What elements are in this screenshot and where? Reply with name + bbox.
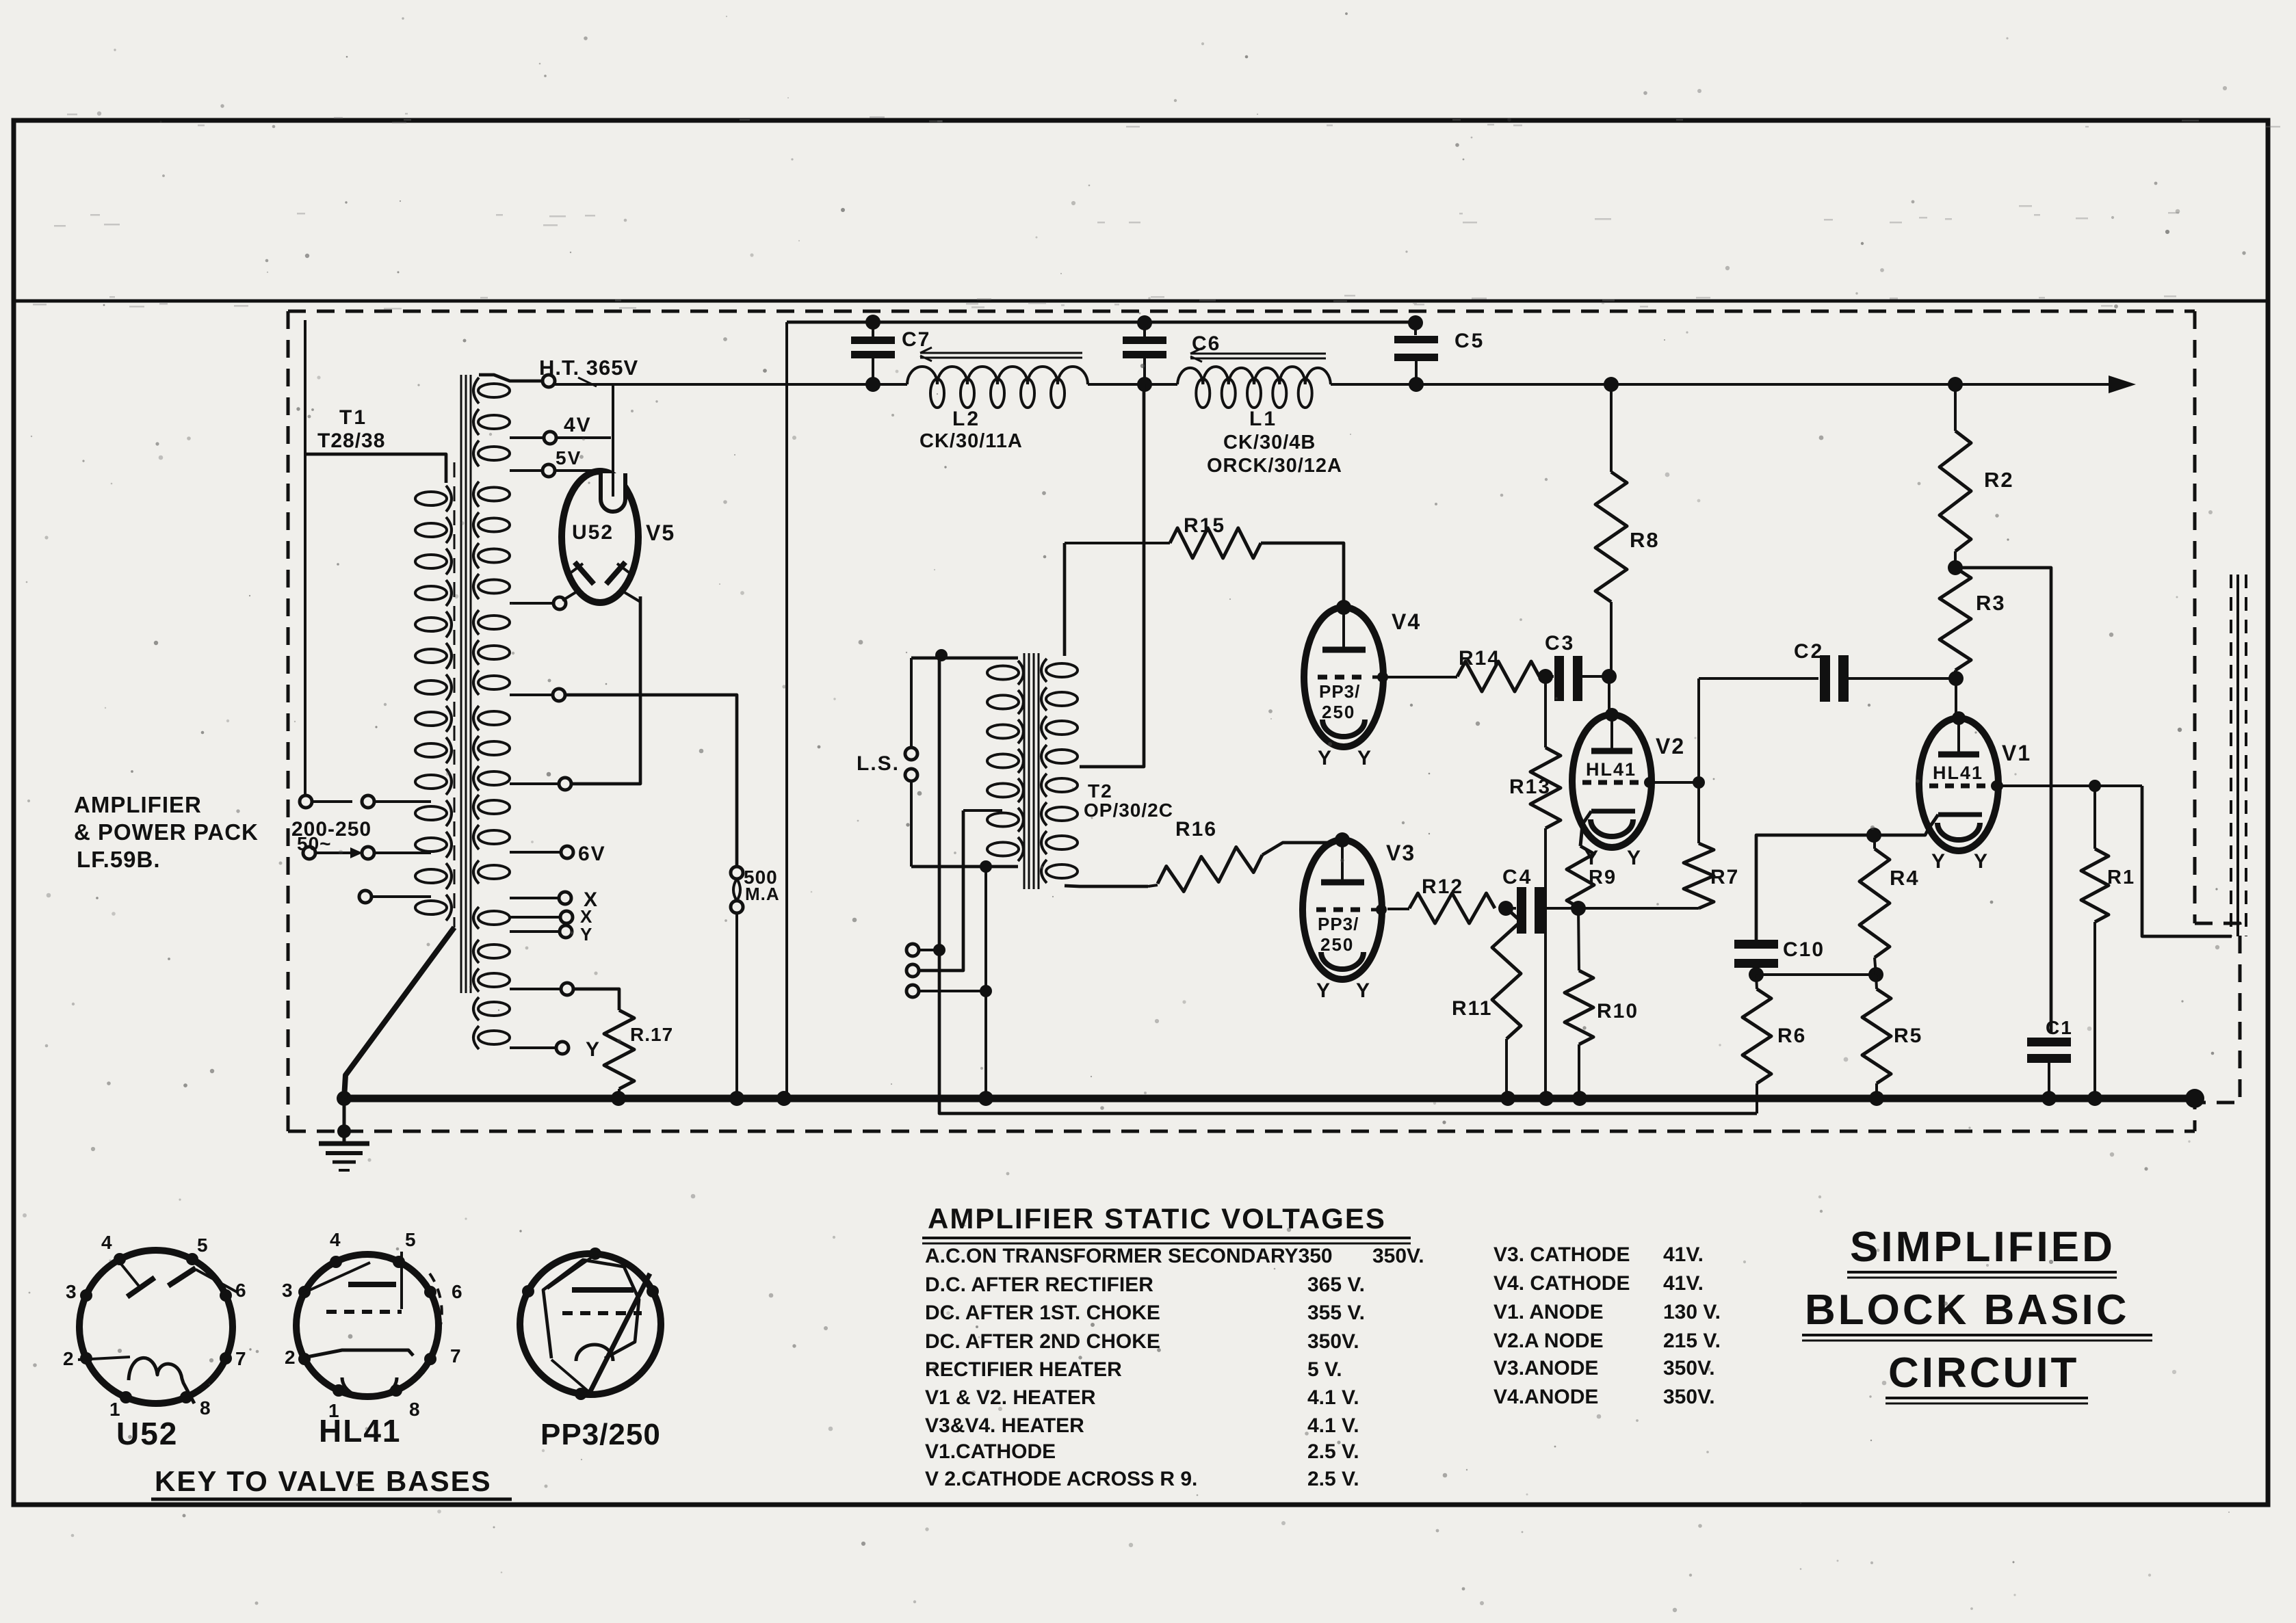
bus junction dot x2204 — [1500, 1091, 1515, 1106]
svg-text:PP3/: PP3/ — [1319, 681, 1360, 702]
svg-text:H.T. 365V: H.T. 365V — [539, 356, 638, 380]
svg-text:U52: U52 — [116, 1416, 178, 1451]
T2 primary winding — [1046, 663, 1078, 677]
svg-text:R4: R4 — [1890, 866, 1920, 890]
dashed enclosure left — [287, 311, 290, 1131]
svg-text:L2: L2 — [952, 408, 980, 430]
V5 right anode — [606, 562, 625, 584]
LS terminal wire bottom — [910, 782, 913, 867]
tap to R17 wire — [573, 989, 619, 1010]
svg-text:Y: Y — [1931, 850, 1946, 873]
svg-text:D.C. AFTER RECTIFIER: D.C. AFTER RECTIFIER — [925, 1274, 1153, 1296]
HL41 dashed rim — [430, 1274, 442, 1342]
V5 top notch — [601, 473, 625, 512]
mains input terminal B1 — [303, 847, 315, 859]
svg-text:C2: C2 — [1794, 640, 1824, 663]
valve V5 envelope — [562, 471, 638, 603]
T2 primary bottom lead — [1065, 886, 1148, 886]
bus junction dot x503 — [337, 1091, 352, 1106]
svg-text:V1: V1 — [2002, 741, 2031, 765]
V1 anode feed — [1955, 678, 1957, 719]
6V tap — [510, 851, 561, 854]
T1 core — [460, 375, 462, 993]
HL41 anode — [348, 1282, 396, 1287]
V5 right anode lead — [620, 590, 640, 602]
svg-text:RECTIFIER HEATER: RECTIFIER HEATER — [925, 1358, 1122, 1381]
svg-text:5: 5 — [197, 1235, 208, 1256]
HL41 pins — [330, 1256, 342, 1268]
T2 secondary bottom lead — [911, 865, 1018, 869]
U52 pins — [114, 1253, 126, 1265]
Y1 tap — [510, 930, 560, 933]
HT rail segment 2 — [1088, 383, 1177, 386]
svg-text:R7: R7 — [1710, 866, 1739, 888]
dashed enclosure right — [2193, 311, 2197, 923]
T1 secondary seg B — [478, 488, 510, 501]
svg-text:R10: R10 — [1597, 1000, 1639, 1022]
svg-text:C6: C6 — [1192, 332, 1221, 355]
valve V2 — [1572, 715, 1652, 847]
choke L2 — [907, 367, 937, 384]
svg-text:350V.: 350V. — [1663, 1357, 1715, 1380]
T2 secondary top lead — [911, 657, 1018, 660]
jack terminal 2 — [906, 964, 919, 977]
R2 lower lead — [1954, 551, 1957, 568]
svg-text:DC. AFTER 2ND CHOKE: DC. AFTER 2ND CHOKE — [925, 1330, 1160, 1353]
svg-text:4V: 4V — [564, 414, 592, 436]
svg-text:R3: R3 — [1976, 591, 2006, 615]
capacitor C7 — [865, 315, 880, 330]
capacitor C2 — [1699, 677, 1818, 680]
svg-text:130 V.: 130 V. — [1663, 1301, 1721, 1323]
resistor R7 — [1697, 782, 1700, 843]
resistor R1 — [2093, 786, 2096, 849]
resistor R10 — [1578, 908, 1579, 971]
node T2 top wire — [935, 649, 948, 661]
svg-text:Y: Y — [1318, 747, 1332, 769]
svg-text:C4: C4 — [1502, 866, 1532, 888]
T1 secondary seg F — [478, 865, 510, 879]
svg-text:350V.: 350V. — [1307, 1330, 1359, 1353]
svg-text:6: 6 — [235, 1280, 246, 1301]
svg-text:T2: T2 — [1088, 780, 1113, 802]
svg-text:C10: C10 — [1783, 938, 1825, 961]
svg-text:Y: Y — [1974, 850, 1988, 873]
svg-text:V1 & V2. HEATER: V1 & V2. HEATER — [925, 1386, 1096, 1409]
ground bus — [344, 1095, 2195, 1103]
svg-text:7: 7 — [235, 1348, 246, 1369]
node R1 top — [2089, 780, 2101, 792]
svg-text:5 V.: 5 V. — [1307, 1358, 1342, 1381]
5V tap — [510, 469, 543, 472]
T1 secondary seg G — [478, 911, 510, 925]
T1 screen dashed line — [454, 462, 456, 927]
svg-text:R13: R13 — [1509, 776, 1551, 798]
svg-text:350V.: 350V. — [1372, 1245, 1424, 1267]
svg-text:SIMPLIFIED: SIMPLIFIED — [1850, 1224, 2115, 1271]
resistor R4 — [1860, 849, 1890, 958]
centre tap to fuse wire — [565, 695, 737, 867]
T2 secondary winding — [987, 666, 1019, 680]
grid wire to input connector — [2142, 786, 2232, 936]
svg-text:41V.: 41V. — [1663, 1243, 1704, 1266]
HT terminal — [543, 375, 555, 387]
svg-text:V 2.CATHODE ACROSS R 9.: V 2.CATHODE ACROSS R 9. — [925, 1468, 1197, 1490]
svg-text:C1: C1 — [2046, 1017, 2073, 1038]
svg-text:V4. CATHODE: V4. CATHODE — [1493, 1272, 1630, 1295]
resistor R6 — [1756, 975, 1757, 989]
valve V3 — [1303, 840, 1382, 979]
svg-text:R14: R14 — [1459, 647, 1500, 670]
svg-text:6: 6 — [452, 1281, 462, 1302]
T1 secondary seg C — [478, 616, 510, 629]
L2 core lines — [920, 352, 1082, 354]
mains input terminal C — [359, 890, 371, 903]
svg-text:250: 250 — [1322, 702, 1355, 722]
Y2 tap — [510, 1046, 556, 1049]
capacitor C1 — [2027, 1038, 2071, 1046]
fuse 500MA — [731, 867, 743, 879]
SIMPLIFIED underline — [1847, 1271, 2117, 1274]
bus junction dot x1077 — [729, 1091, 744, 1106]
node T2 bottom — [980, 860, 992, 873]
R15 right wire — [1261, 543, 1344, 605]
svg-text:R2: R2 — [1984, 468, 2014, 492]
heading underline — [922, 1237, 1411, 1239]
R3 lower lead — [1954, 670, 1957, 678]
bus junction dot x2995 — [2041, 1091, 2057, 1106]
svg-text:C3: C3 — [1545, 632, 1575, 655]
resistor R13 — [1544, 676, 1547, 748]
tap 1446 — [510, 988, 561, 990]
svg-text:Y: Y — [580, 924, 592, 945]
tap 1016 (centre tap) — [510, 694, 553, 696]
svg-text:PP3/250: PP3/250 — [540, 1418, 661, 1451]
svg-text:LF.59B.: LF.59B. — [77, 847, 161, 872]
LS terminal 2 — [905, 769, 917, 781]
bus junction dot x2309 — [1572, 1091, 1587, 1106]
svg-text:365 V.: 365 V. — [1307, 1274, 1365, 1296]
svg-text:OP/30/2C: OP/30/2C — [1084, 800, 1173, 821]
jack-common return line — [939, 655, 1757, 1113]
svg-text:Y: Y — [1357, 747, 1372, 769]
svg-text:V3&V4. HEATER: V3&V4. HEATER — [925, 1414, 1084, 1437]
svg-text:M.A: M.A — [745, 884, 780, 904]
mains input terminal A2 — [362, 795, 374, 808]
svg-text:L.S.: L.S. — [857, 752, 900, 775]
choke L1 — [1177, 368, 1203, 384]
capacitor C10 — [1734, 940, 1778, 949]
svg-text:V3.ANODE: V3.ANODE — [1493, 1357, 1598, 1380]
svg-text:R8: R8 — [1630, 528, 1660, 552]
V2 grid riser to C2 — [1697, 678, 1700, 782]
svg-text:Y: Y — [1316, 979, 1331, 1002]
svg-text:3: 3 — [282, 1280, 293, 1301]
svg-text:CK/30/4B: CK/30/4B — [1223, 432, 1316, 453]
tap 882 — [510, 602, 553, 605]
LS terminal wire top — [910, 658, 913, 747]
cathode bias wire — [1756, 973, 1876, 976]
valve base U52 ring — [79, 1250, 233, 1403]
bus junction dot x1146 — [777, 1091, 792, 1106]
svg-text:U52: U52 — [572, 521, 614, 544]
svg-text:8: 8 — [200, 1397, 211, 1419]
HL41 bottom arc — [342, 1377, 397, 1398]
HL41 cathode — [307, 1350, 413, 1357]
svg-text:R11: R11 — [1452, 997, 1492, 1020]
svg-text:BLOCK BASIC: BLOCK BASIC — [1805, 1286, 2130, 1334]
T1 primary winding — [415, 492, 447, 505]
T1 secondary seg Hh — [478, 945, 510, 958]
T1 screen to ground — [344, 927, 454, 1098]
svg-text:Y: Y — [1356, 979, 1370, 1002]
PP3 diagonals — [590, 1274, 650, 1393]
V5 left anode — [575, 562, 594, 584]
R17 to bus — [618, 1089, 621, 1098]
HT rail segment 1 — [555, 383, 907, 386]
svg-text:V3: V3 — [1386, 841, 1416, 865]
jack3/T2 bottom wire — [984, 867, 987, 1098]
node C10/R6 — [1749, 967, 1764, 982]
resistor R5 — [1876, 975, 1877, 989]
U52 cathode — [78, 1357, 130, 1360]
valve V1 — [1919, 718, 1998, 851]
R8 lower lead — [1610, 602, 1613, 676]
ground symbol — [343, 1098, 346, 1144]
resistor R8 feed — [1604, 377, 1619, 392]
svg-text:C5: C5 — [1454, 330, 1485, 352]
resistor R3 — [1940, 568, 1971, 670]
T2 primary top lead — [1063, 543, 1067, 656]
svg-text:R15: R15 — [1184, 514, 1225, 537]
svg-text:R12: R12 — [1422, 875, 1463, 898]
resistor R17 — [604, 1010, 634, 1089]
V5 left anode lead — [562, 590, 580, 601]
dashed enclosure bottom — [288, 1130, 2195, 1133]
svg-text:PP3/: PP3/ — [1318, 914, 1359, 934]
KEY underline — [151, 1498, 512, 1501]
HT rail arrowhead — [2109, 375, 2136, 393]
mains link wire B — [315, 852, 350, 854]
resistor R9 — [1580, 825, 1582, 846]
valve V4 — [1304, 607, 1383, 747]
mains feed wire — [304, 320, 306, 794]
dashed enclosure top — [288, 310, 2195, 313]
capacitor C6 — [1137, 315, 1152, 330]
resistor R12 — [1409, 893, 1495, 923]
tap 1146 — [510, 782, 559, 785]
R16 right wire — [1262, 843, 1340, 855]
T1 secondary seg D — [478, 711, 510, 725]
svg-text:8: 8 — [409, 1399, 420, 1420]
HT lead — [479, 375, 543, 381]
node R4 top — [1866, 828, 1881, 843]
capacitor C5 — [1408, 315, 1423, 330]
svg-text:350V.: 350V. — [1663, 1386, 1715, 1408]
R3 node to C1 wire — [1961, 568, 2051, 1033]
svg-text:215 V.: 215 V. — [1663, 1330, 1721, 1352]
svg-text:AMPLIFIER: AMPLIFIER — [74, 792, 202, 817]
svg-text:4.1 V.: 4.1 V. — [1307, 1414, 1359, 1437]
svg-text:R5: R5 — [1894, 1025, 1922, 1047]
resistor R2 feed — [1948, 377, 1963, 392]
svg-text:C7: C7 — [902, 328, 930, 351]
V1 grid wire — [1998, 784, 2142, 787]
valve base PP3 ring — [520, 1254, 661, 1395]
node R5 top — [1868, 967, 1883, 982]
mains input terminal B2 — [362, 847, 374, 859]
svg-text:Y: Y — [586, 1038, 600, 1061]
input connector inner wire — [2236, 575, 2239, 936]
bus junction dot x2260 — [1539, 1091, 1554, 1106]
valve base HL41 ring — [296, 1254, 439, 1397]
HL41 grid — [326, 1310, 402, 1314]
svg-text:KEY TO VALVE BASES: KEY TO VALVE BASES — [155, 1465, 492, 1497]
CIRCUIT underline — [1886, 1397, 2088, 1399]
svg-text:T28/38: T28/38 — [317, 430, 385, 452]
svg-text:6V: 6V — [578, 843, 606, 865]
svg-text:41V.: 41V. — [1663, 1272, 1704, 1295]
resistor R8 — [1595, 472, 1627, 602]
svg-text:& POWER PACK: & POWER PACK — [74, 819, 259, 845]
cap top collector wire — [787, 321, 1416, 324]
svg-text:5: 5 — [405, 1229, 416, 1250]
svg-text:250: 250 — [1320, 934, 1354, 955]
T1 secondary seg HT-top — [478, 384, 510, 397]
svg-text:4: 4 — [330, 1229, 341, 1250]
dashed enclosure right jog — [2195, 923, 2240, 1131]
svg-text:HL41: HL41 — [1586, 759, 1636, 780]
input connector screen dashed A — [2230, 575, 2232, 936]
svg-text:V1.CATHODE: V1.CATHODE — [925, 1440, 1056, 1463]
jack terminal 3 — [906, 985, 919, 997]
collector wire drop to bus — [785, 322, 788, 1098]
4V tap — [510, 436, 544, 439]
R14 right wire — [1539, 675, 1548, 678]
V2 anode feed — [1608, 676, 1610, 715]
tap1146 to V5 anode wire — [571, 596, 640, 784]
svg-text:A.C.ON TRANSFORMER SECONDARY35: A.C.ON TRANSFORMER SECONDARY350 — [925, 1245, 1333, 1267]
resistor R14 wire — [1383, 676, 1457, 678]
svg-text:Y: Y — [1627, 847, 1641, 869]
svg-text:V4: V4 — [1392, 609, 1421, 634]
PP3 anode bar — [572, 1287, 634, 1293]
R15 left wire — [1065, 542, 1170, 544]
resistor R2 — [1940, 431, 1971, 551]
input connector screen dashed B — [2245, 575, 2247, 936]
svg-text:2.5 V.: 2.5 V. — [1307, 1468, 1359, 1490]
svg-text:T1: T1 — [339, 406, 367, 429]
resistor R11 — [1492, 908, 1521, 1039]
svg-text:3: 3 — [66, 1281, 77, 1302]
PP3 grid — [562, 1311, 642, 1315]
svg-text:V2.A NODE: V2.A NODE — [1493, 1330, 1604, 1352]
svg-text:355 V.: 355 V. — [1307, 1302, 1365, 1324]
svg-text:L1: L1 — [1249, 408, 1277, 430]
V2 grid wire — [1649, 781, 1699, 784]
svg-text:R6: R6 — [1777, 1025, 1806, 1047]
svg-text:2: 2 — [285, 1347, 296, 1368]
fuse to bus wire — [735, 913, 738, 1098]
resistor R14 — [1457, 661, 1539, 691]
svg-text:AMPLIFIER STATIC VOLTAGES: AMPLIFIER STATIC VOLTAGES — [928, 1202, 1386, 1235]
bus junction dot x1441 — [978, 1091, 993, 1106]
T1 primary top lead — [306, 454, 446, 483]
capacitor C3 — [1538, 669, 1553, 684]
bus junction dot x904 — [611, 1091, 626, 1106]
bus junction dot x3062 — [2087, 1091, 2102, 1106]
HT rail segment 3 — [1331, 383, 2128, 386]
capacitor C4 — [1498, 901, 1513, 916]
PP3 cathode arc — [576, 1345, 613, 1361]
svg-text:HL41: HL41 — [319, 1413, 401, 1449]
mains link wire A — [312, 800, 352, 803]
svg-text:R16: R16 — [1175, 818, 1217, 841]
LS terminal 1 — [905, 748, 917, 760]
node R2/R3 — [1948, 560, 1963, 575]
svg-text:V5: V5 — [646, 520, 675, 545]
svg-text:HL41: HL41 — [1933, 763, 1983, 783]
R16 left wire — [1148, 885, 1158, 886]
X2 tap — [510, 916, 560, 919]
T1 secondary seg E — [478, 800, 510, 814]
svg-text:R1: R1 — [2107, 867, 2135, 888]
header divider line — [14, 300, 2268, 303]
svg-text:4: 4 — [101, 1232, 112, 1253]
svg-text:V4.ANODE: V4.ANODE — [1493, 1386, 1598, 1408]
X tap — [510, 897, 559, 899]
svg-text:R9: R9 — [1589, 867, 1617, 888]
PP3 pins — [589, 1248, 601, 1260]
svg-text:R.17: R.17 — [630, 1024, 673, 1045]
svg-text:CIRCUIT: CIRCUIT — [1888, 1349, 2079, 1397]
bus end dot — [2185, 1089, 2204, 1108]
jack terminal 1 — [906, 944, 919, 956]
T2 secondary tap lead — [963, 809, 1002, 812]
svg-text:4.1 V.: 4.1 V. — [1307, 1386, 1359, 1409]
L1 core lines — [1190, 353, 1326, 355]
svg-text:7: 7 — [450, 1345, 461, 1367]
BLOCK underline — [1802, 1334, 2152, 1336]
mains input terminal A1 — [300, 795, 312, 808]
T2 primary centre tap — [1080, 384, 1144, 767]
bus junction dot x2743 — [1869, 1091, 1884, 1106]
PP3 inner outline — [543, 1260, 639, 1358]
resistor R15 — [1170, 528, 1261, 558]
svg-text:V3. CATHODE: V3. CATHODE — [1493, 1243, 1630, 1266]
resistor R16 — [1158, 847, 1262, 892]
V1 cathode wire — [1756, 830, 1928, 940]
svg-text:5V: 5V — [556, 447, 582, 469]
U52 anodes — [118, 1260, 141, 1289]
svg-text:CK/30/11A: CK/30/11A — [919, 430, 1023, 452]
svg-text:V2: V2 — [1656, 734, 1685, 758]
svg-text:2: 2 — [63, 1348, 74, 1369]
svg-text:DC. AFTER 1ST. CHOKE: DC. AFTER 1ST. CHOKE — [925, 1302, 1160, 1324]
svg-text:V1. ANODE: V1. ANODE — [1493, 1301, 1604, 1323]
T1 secondary seg I — [478, 1002, 510, 1016]
V5 cathode feed — [612, 384, 614, 497]
svg-text:ORCK/30/12A: ORCK/30/12A — [1207, 455, 1342, 477]
resistor R12 wire — [1387, 908, 1409, 910]
svg-text:2.5 V.: 2.5 V. — [1307, 1440, 1359, 1463]
node C4/R9/R10 — [1571, 901, 1586, 916]
T2 core — [1023, 653, 1026, 889]
